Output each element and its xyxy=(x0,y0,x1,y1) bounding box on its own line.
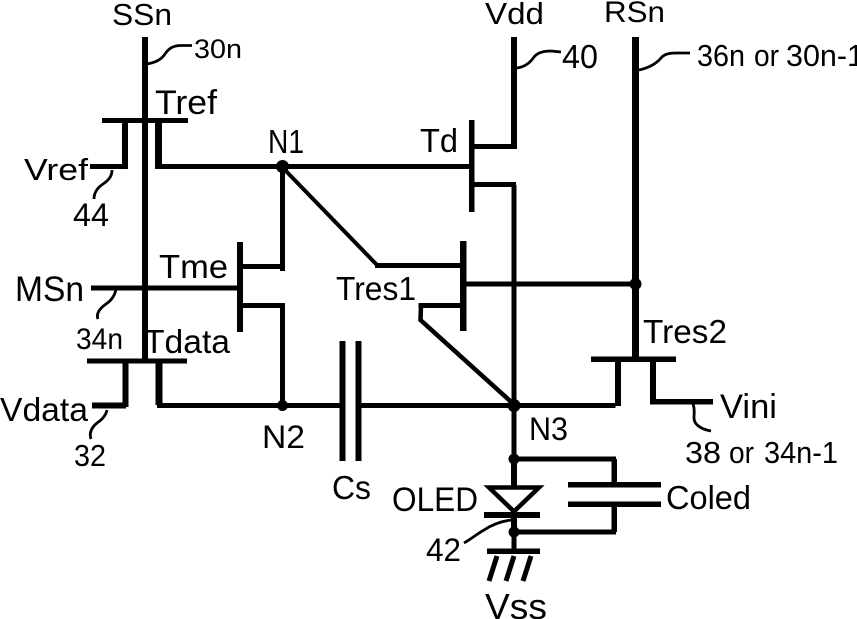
svg-text:or: or xyxy=(729,435,754,470)
svg-text:36n: 36n xyxy=(697,38,745,73)
leader line to 44 xyxy=(94,170,112,199)
svg-text:N1: N1 xyxy=(268,123,304,160)
svg-text:Vdata: Vdata xyxy=(0,391,89,428)
wire Coled top branch xyxy=(514,457,616,462)
svg-text:Tdata: Tdata xyxy=(144,323,231,360)
svg-text:SSn: SSn xyxy=(112,0,172,32)
net SSn bus line xyxy=(142,37,148,363)
wire Coled right lower xyxy=(612,507,618,532)
svg-text:Tme: Tme xyxy=(159,248,228,285)
wire N1 vertical drop xyxy=(280,166,285,271)
svg-text:Coled: Coled xyxy=(666,479,751,516)
wire OLED anode xyxy=(511,459,517,487)
svg-text:42: 42 xyxy=(426,532,461,568)
svg-text:34n-1: 34n-1 xyxy=(764,435,838,470)
svg-text:Tres1: Tres1 xyxy=(336,270,416,307)
junction dot cathode xyxy=(509,527,520,538)
node N1 xyxy=(276,160,289,173)
wire Coled right upper xyxy=(612,459,618,483)
svg-text:30n-1: 30n-1 xyxy=(786,38,857,73)
svg-text:N3: N3 xyxy=(529,411,568,447)
svg-text:Vss: Vss xyxy=(485,586,547,619)
wire OLED cathode xyxy=(511,516,517,532)
node N3 xyxy=(508,399,521,412)
ground Vss xyxy=(487,549,540,582)
svg-text:Tref: Tref xyxy=(155,84,218,122)
svg-text:44: 44 xyxy=(73,197,109,233)
net Vdd bus line xyxy=(511,37,517,149)
transistor Tref xyxy=(102,118,188,169)
diode OLED xyxy=(484,488,540,519)
wire Tme source to N2 xyxy=(280,303,285,406)
svg-text:Vdd: Vdd xyxy=(485,0,544,31)
svg-text:38: 38 xyxy=(685,435,721,470)
leader line to 38 xyxy=(693,404,711,431)
transistor Tdata xyxy=(87,359,187,408)
capacitor Coled xyxy=(568,482,661,507)
svg-text:Tres2: Tres2 xyxy=(643,313,727,350)
wire Tres1 gate to RSn xyxy=(467,282,633,287)
leader line to 40 xyxy=(517,51,561,68)
svg-text:N2: N2 xyxy=(262,419,305,455)
leader line to 36n xyxy=(639,53,690,70)
wire to ground xyxy=(512,532,517,550)
svg-text:Td: Td xyxy=(420,122,458,159)
wire N3 down xyxy=(512,405,517,459)
wire Coled bottom branch xyxy=(514,530,616,535)
leader line to 30n xyxy=(146,46,192,65)
node N2 xyxy=(277,400,288,411)
svg-text:40: 40 xyxy=(562,38,598,75)
wire N1 diagonal to Tres1 xyxy=(283,168,377,265)
leader line to 32 xyxy=(90,410,107,439)
junction dot anode branch xyxy=(509,454,520,465)
wire Vini lead xyxy=(650,399,713,405)
svg-text:RSn: RSn xyxy=(604,0,665,29)
leader line to 42 xyxy=(464,520,511,543)
svg-text:MSn: MSn xyxy=(15,270,84,309)
wire Td drain down to N3 xyxy=(512,185,517,405)
svg-text:Cs: Cs xyxy=(332,469,371,506)
svg-text:Vini: Vini xyxy=(720,388,777,426)
leader line to 34n xyxy=(97,289,116,319)
svg-text:32: 32 xyxy=(74,438,106,473)
transistor Tres1 xyxy=(375,241,514,404)
net RSn bus line xyxy=(632,37,639,359)
net MSn wire xyxy=(91,286,237,291)
svg-text:or: or xyxy=(754,38,779,73)
wire N2 segment xyxy=(157,403,340,408)
svg-text:OLED: OLED xyxy=(392,481,478,519)
junction dot on RSn xyxy=(630,278,642,290)
capacitor Cs xyxy=(340,341,362,461)
transistor Tme xyxy=(237,242,285,332)
svg-text:30n: 30n xyxy=(194,34,242,64)
transistor Tres2 xyxy=(591,357,676,407)
wire N1 horizontal xyxy=(155,164,470,169)
transistor Td xyxy=(469,120,516,212)
wire Vdata lead xyxy=(92,403,126,409)
svg-text:Vref: Vref xyxy=(24,152,88,187)
wire N2-N3 segment xyxy=(362,403,616,408)
svg-text:34n: 34n xyxy=(76,323,123,356)
wire Vref lead xyxy=(90,164,128,169)
